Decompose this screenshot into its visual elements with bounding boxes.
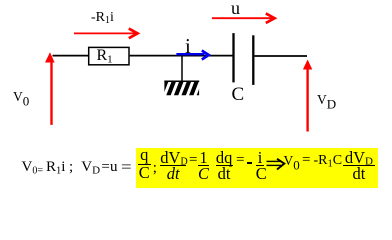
label u [231,0,240,17]
semicolon in yellow [153,161,157,176]
-R1C [314,154,343,170]
label C [232,85,245,104]
circuit drawing [0,0,392,189]
equals 3 [302,153,310,168]
fraction q/C [138,147,151,180]
fraction 1/C [198,150,210,181]
ground [160,80,205,97]
formula white VD = [81,160,110,177]
label V0 [13,90,29,108]
fraction dVD/dt (conclusion) [343,150,375,181]
fraction dVD/dt [160,150,186,181]
arrow i (blue, current) [176,51,208,60]
equals 2 [236,153,244,168]
capacitor C right plate [252,35,254,85]
implies arrow [0,0,392,189]
label R1 [97,48,113,66]
formula white equals [121,160,132,176]
arrow -R1i (red, top-left) [74,29,138,39]
label i [185,36,191,57]
equals 1 [189,153,197,168]
wire right segment [254,55,307,57]
fraction i/C [256,150,265,181]
capacitor C left plate [232,33,234,82]
yellow highlight rectangle [136,148,378,188]
fraction dq/dt [216,150,233,181]
formula white u [110,160,118,175]
formula white semicolon [69,160,73,175]
label VD [317,93,336,111]
wire middle segment [130,55,233,57]
minus [247,162,252,164]
wire ground stub [181,56,183,81]
label -R1i [91,11,114,26]
arrow V0 (red, vertical left) [45,52,55,125]
resistor R1 box [89,47,129,64]
wire left segment [53,55,89,57]
formula white part: V0= R1i [22,160,66,177]
arrow u (red, top-right) [212,13,275,23]
arrow VD (red, vertical right) [303,60,312,132]
V0 (conclusion) [284,154,300,172]
